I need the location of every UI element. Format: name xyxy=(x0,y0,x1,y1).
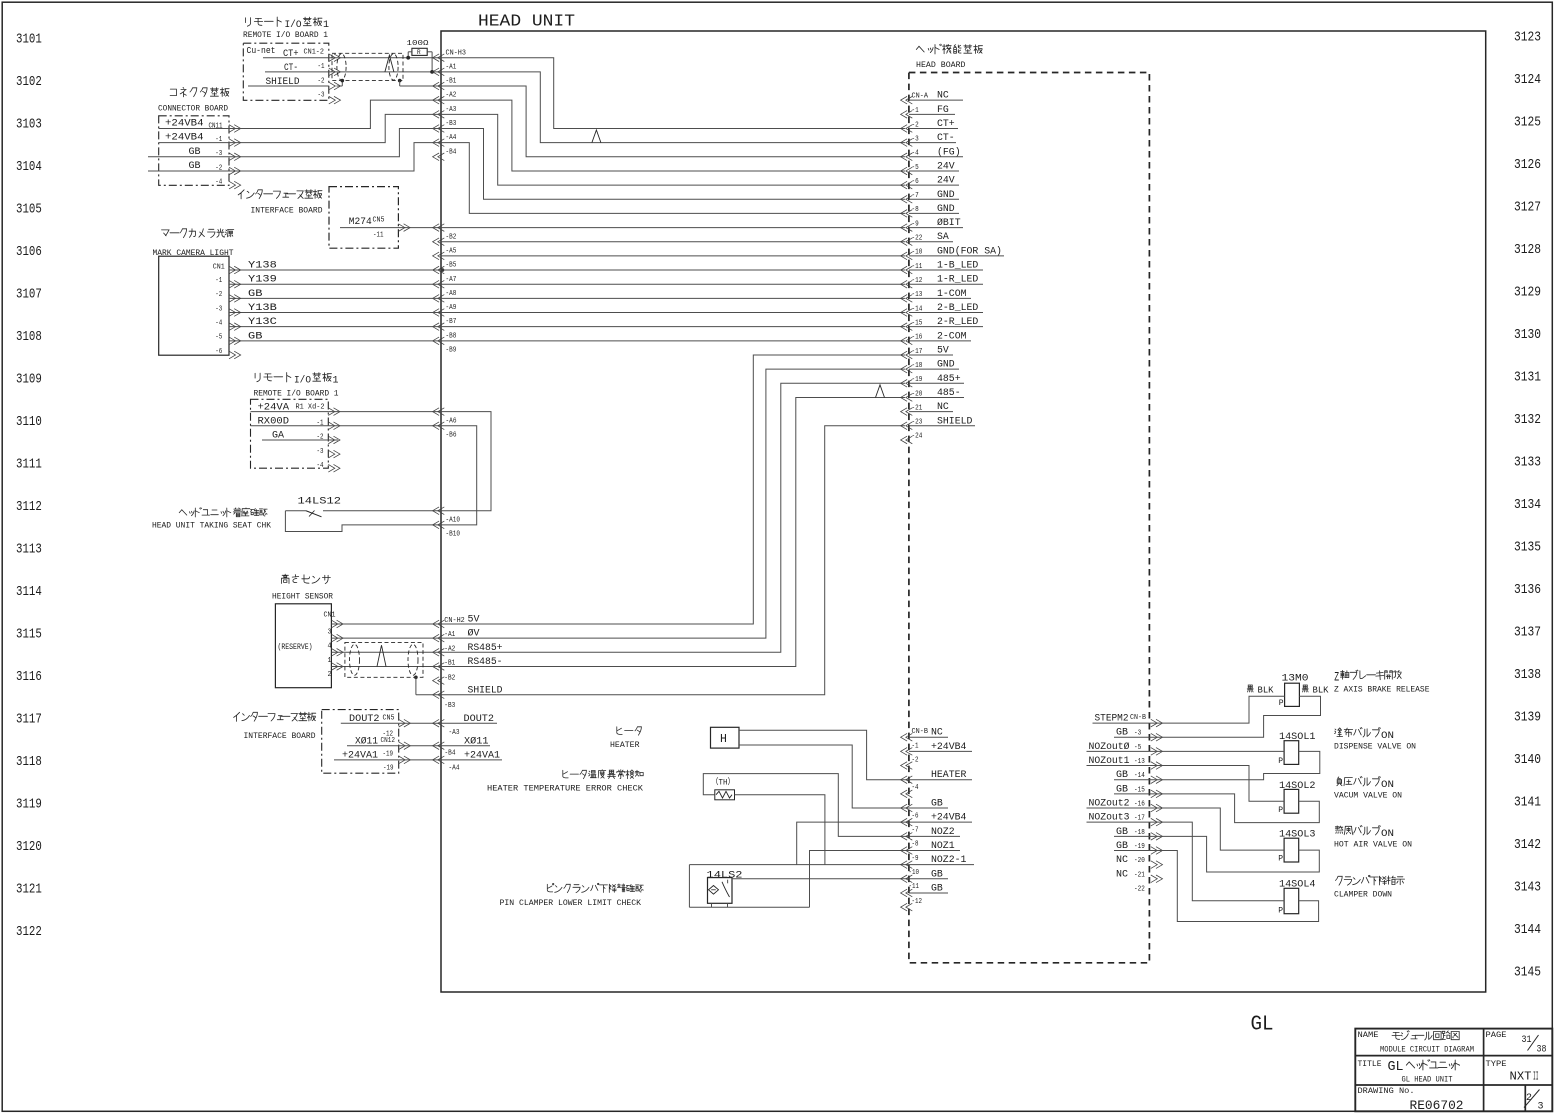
SOL4 right return to GB-19 xyxy=(1149,850,1318,921)
svg-text:3127: 3127 xyxy=(1514,201,1541,216)
CN-A pin -7 GND xyxy=(901,195,908,203)
+24VB4 feed for clamper sensor xyxy=(797,822,909,864)
svg-text:-B3: -B3 xyxy=(446,120,457,128)
svg-text:-3: -3 xyxy=(317,448,324,456)
svg-text:HEAD UNIT TAKING SEAT CHK: HEAD UNIT TAKING SEAT CHK xyxy=(152,522,271,531)
svg-text:HEAD BOARD: HEAD BOARD xyxy=(916,60,966,70)
svg-text:-3: -3 xyxy=(1134,730,1141,738)
svg-text:3124: 3124 xyxy=(1514,73,1541,88)
CN-B right pin -17 NOZout3 xyxy=(1151,818,1158,826)
CN-A pin NC xyxy=(901,96,908,104)
svg-text:3125: 3125 xyxy=(1514,116,1541,131)
svg-text:CN1: CN1 xyxy=(213,264,225,272)
svg-text:CN5: CN5 xyxy=(373,217,385,225)
svg-text:-11: -11 xyxy=(909,883,920,891)
CN-A pin -4 (FG) xyxy=(901,153,908,161)
wire B3 to GND xyxy=(441,128,905,199)
svg-text:-A5: -A5 xyxy=(446,247,457,255)
heater wires to CN-B xyxy=(739,730,909,779)
svg-text:3115: 3115 xyxy=(16,628,42,643)
svg-text:3116: 3116 xyxy=(16,670,42,685)
svg-text:INTERFACE BOARD: INTERFACE BOARD xyxy=(251,207,323,216)
CN-B pin row 49 +24VB4 xyxy=(901,748,908,756)
svg-text:-A8: -A8 xyxy=(446,290,457,298)
svg-text:MODULE CIRCUIT DIAGRAM: MODULE CIRCUIT DIAGRAM xyxy=(1380,1045,1474,1055)
svg-text:3138: 3138 xyxy=(1514,668,1541,683)
CN-B right pin -16 NOZout2 xyxy=(1151,804,1158,812)
wire CT- xyxy=(329,71,441,73)
proximity switch 14LS2 box xyxy=(708,878,733,904)
svg-text:DRAWING No.: DRAWING No. xyxy=(1358,1086,1415,1096)
interface board box xyxy=(329,187,398,249)
svg-text:NAME: NAME xyxy=(1358,1030,1379,1040)
title block xyxy=(1355,1029,1552,1112)
svg-text:+24VB4: +24VB4 xyxy=(165,132,204,144)
twisted pair peak 485 xyxy=(377,645,386,666)
CN-A pin -18 GND xyxy=(901,365,908,373)
svg-text:GL HEAD UNIT: GL HEAD UNIT xyxy=(1402,1075,1453,1085)
svg-text:+24VB4: +24VB4 xyxy=(165,118,204,130)
NOZ1 wire xyxy=(810,850,910,907)
svg-text:3136: 3136 xyxy=(1514,583,1541,598)
svg-text:3: 3 xyxy=(328,628,332,636)
CN-B pin row 51 HEATER xyxy=(901,776,908,784)
svg-text:-B10: -B10 xyxy=(446,531,461,539)
svg-text:3130: 3130 xyxy=(1514,328,1541,343)
svg-text:-22: -22 xyxy=(1134,885,1145,893)
svg-text:NC: NC xyxy=(1116,868,1128,880)
svg-text:ON: ON xyxy=(1381,730,1394,742)
svg-text:M274: M274 xyxy=(349,216,372,228)
svg-text:3113: 3113 xyxy=(16,543,42,558)
wire +24VA to A6 and inner loop to A10 xyxy=(328,411,441,413)
wire A3 to 24V xyxy=(441,114,905,185)
CN-A pin -22 SA xyxy=(901,238,908,246)
svg-text:-B4: -B4 xyxy=(446,148,457,156)
wire CT+ internal xyxy=(441,58,905,129)
remote I/O board 1 (2) title xyxy=(255,373,291,383)
CN-B right pin -13 NOZout1 xyxy=(1151,762,1158,770)
CN-B right pin -14 GB xyxy=(1151,776,1158,784)
svg-text:3106: 3106 xyxy=(16,245,42,260)
CN-A pin -1 FG xyxy=(901,111,908,119)
wire A2 to 24V xyxy=(441,100,905,171)
svg-text:-A2: -A2 xyxy=(446,92,457,100)
svg-text:3132: 3132 xyxy=(1514,413,1541,428)
svg-text:-13: -13 xyxy=(1134,758,1145,766)
svg-text:ON: ON xyxy=(1381,828,1394,840)
svg-text:3107: 3107 xyxy=(16,287,42,302)
board pins chevrons xyxy=(329,54,336,62)
TH circuit wires xyxy=(703,774,909,837)
wire A4 to GND xyxy=(441,143,905,214)
svg-text:3134: 3134 xyxy=(1514,498,1541,513)
CN-B right pin -20 NC xyxy=(1151,861,1158,869)
svg-text:3117: 3117 xyxy=(16,713,42,728)
label hot air valve on xyxy=(1335,826,1380,836)
sensor diamond xyxy=(709,886,719,895)
svg-text:CN1: CN1 xyxy=(324,612,336,620)
CN-A pin -16 2-COM xyxy=(901,337,908,345)
svg-text:2: 2 xyxy=(328,671,332,679)
svg-text:-14: -14 xyxy=(1134,772,1145,780)
svg-text:-1: -1 xyxy=(317,420,324,428)
svg-text:-21: -21 xyxy=(1134,871,1145,879)
HEAD BOARD dashed enclosure xyxy=(909,73,1150,963)
svg-text:-6: -6 xyxy=(215,348,222,356)
svg-text:-A6: -A6 xyxy=(446,417,457,425)
svg-text:BLK: BLK xyxy=(1258,686,1275,696)
svg-text:R1 Xd-2: R1 Xd-2 xyxy=(296,403,325,411)
wire shield inner xyxy=(441,426,905,695)
svg-text:-6: -6 xyxy=(912,813,919,821)
svg-text:3109: 3109 xyxy=(16,372,42,387)
label head board jp xyxy=(916,44,982,54)
svg-text:3145: 3145 xyxy=(1514,966,1541,981)
svg-text:-19: -19 xyxy=(383,751,394,759)
svg-text:NXT: NXT xyxy=(1510,1071,1532,1084)
svg-text:3118: 3118 xyxy=(16,755,42,770)
CN-A pin -20 485- xyxy=(901,394,908,402)
CN-B right pin -19 GB xyxy=(1151,847,1158,855)
svg-text:-B9: -B9 xyxy=(446,347,457,355)
svg-text:-12: -12 xyxy=(912,898,923,906)
CN-B right pin -5 NOZoutØ xyxy=(1151,748,1158,756)
svg-text:-4: -4 xyxy=(317,462,324,470)
svg-text:Z AXIS BRAKE RELEASE: Z AXIS BRAKE RELEASE xyxy=(1334,686,1430,695)
svg-text:38: 38 xyxy=(1537,1044,1547,1056)
remote I/O board 1 (Cu-net) title xyxy=(246,17,282,27)
connector board box xyxy=(159,116,229,186)
svg-text:HOT AIR VALVE ON: HOT AIR VALVE ON xyxy=(1334,841,1412,850)
svg-text:(RESERVE): (RESERVE) xyxy=(278,642,313,652)
shield cable (Cu-net pair) xyxy=(332,53,403,80)
CN-A pin -15 2-R_LED xyxy=(901,323,908,331)
svg-text:-B1: -B1 xyxy=(446,78,457,86)
HEAD UNIT enclosure box xyxy=(441,31,1486,992)
svg-text:-1: -1 xyxy=(215,277,222,285)
svg-text:-2: -2 xyxy=(912,756,919,764)
svg-text:-11: -11 xyxy=(373,232,384,240)
svg-text:3131: 3131 xyxy=(1514,371,1541,386)
svg-text:PAGE: PAGE xyxy=(1486,1030,1507,1040)
CN-A pin -14 2-B_LED xyxy=(901,309,908,317)
svg-text:3123: 3123 xyxy=(1514,31,1541,46)
heater temp error check label xyxy=(563,770,643,779)
SOL1 right return to GB-14 xyxy=(1149,751,1319,779)
label clamper down xyxy=(1336,875,1405,885)
svg-text:RE06702: RE06702 xyxy=(1410,1099,1464,1113)
svg-text:-7: -7 xyxy=(912,827,919,835)
svg-text:（TH）: （TH） xyxy=(711,777,735,788)
CN-B pin row 48 NC xyxy=(901,733,908,741)
svg-text:-17: -17 xyxy=(1134,815,1145,823)
CN-A pin -24 xyxy=(901,436,908,444)
sensor bottom legs xyxy=(711,903,713,907)
svg-text:PIN CLAMPER LOWER LIMIT CHECK: PIN CLAMPER LOWER LIMIT CHECK xyxy=(500,899,642,908)
switch blade xyxy=(306,511,322,517)
heater label xyxy=(617,727,642,735)
svg-text:-A7: -A7 xyxy=(446,276,457,284)
svg-text:CN-A: CN-A xyxy=(912,93,929,101)
svg-text:CN12: CN12 xyxy=(381,737,396,745)
shield cable height sensor xyxy=(345,642,423,677)
interface board title xyxy=(238,190,322,199)
svg-text:-15: -15 xyxy=(1134,786,1145,794)
height sensor box xyxy=(275,604,331,688)
label head unit taking seat chk xyxy=(179,508,267,517)
svg-text:14LS12: 14LS12 xyxy=(298,496,342,508)
CN-B pin row 54 +24VB4 xyxy=(901,818,908,826)
svg-text:-18: -18 xyxy=(1134,829,1145,837)
svg-text:-B4: -B4 xyxy=(445,750,456,758)
svg-text:-2: -2 xyxy=(318,77,325,85)
SOL1 left wire xyxy=(1149,750,1284,752)
svg-text:HEAD UNIT: HEAD UNIT xyxy=(478,13,575,32)
svg-text:I/O: I/O xyxy=(285,19,302,31)
SOL3 right return to GB-18 xyxy=(1149,836,1319,872)
svg-text:P: P xyxy=(1278,757,1283,766)
svg-text:3139: 3139 xyxy=(1514,711,1541,726)
svg-text:-10: -10 xyxy=(909,869,920,877)
CN-A pin -3 CT- xyxy=(901,139,908,147)
svg-text:-B2: -B2 xyxy=(446,233,457,241)
svg-text:-4: -4 xyxy=(215,320,222,328)
bottom wire run xyxy=(689,906,809,908)
svg-text:-1: -1 xyxy=(912,743,919,751)
wire SHIELD to (FG) xyxy=(441,86,905,157)
label vacum valve on xyxy=(1337,777,1381,787)
svg-text:GL: GL xyxy=(1251,1012,1274,1036)
svg-text:Z: Z xyxy=(1334,670,1339,685)
CN-A pin -19 485+ xyxy=(901,380,908,388)
svg-text:3143: 3143 xyxy=(1514,881,1541,896)
svg-text:3126: 3126 xyxy=(1514,158,1541,173)
svg-text:P: P xyxy=(1278,806,1283,815)
svg-text:-24: -24 xyxy=(912,433,923,441)
svg-text:-2: -2 xyxy=(317,434,324,442)
CN-A pin -23 SHIELD xyxy=(901,422,908,430)
CN-B pin row 55 NOZ2 xyxy=(901,833,908,841)
CN-B right pin -21 NC xyxy=(1151,875,1158,883)
twisted pair peak xyxy=(385,55,394,72)
CN-A pin -12 1-R_LED xyxy=(901,280,908,288)
twisted pair CT xyxy=(592,130,601,143)
svg-text:3121: 3121 xyxy=(16,883,42,898)
remote I/O board box xyxy=(251,399,329,468)
CN-B pin row 57 NOZ2-1 xyxy=(901,861,908,869)
svg-text:3137: 3137 xyxy=(1514,626,1541,641)
CN-B pin row 52 xyxy=(901,790,908,798)
svg-text:INTERFACE BOARD: INTERFACE BOARD xyxy=(244,732,316,741)
CN-B right pin -3 GB xyxy=(1151,733,1158,741)
svg-text:-3: -3 xyxy=(318,92,325,100)
sensor blade xyxy=(722,882,730,897)
mark camera light title xyxy=(162,229,234,238)
svg-text:3142: 3142 xyxy=(1514,838,1541,853)
SOL2 left wire from NOZout1 xyxy=(1149,766,1284,802)
CN-B right pin STEPM2 xyxy=(1151,719,1158,727)
svg-text:3128: 3128 xyxy=(1514,243,1541,258)
svg-text:-19: -19 xyxy=(1134,843,1145,851)
wires connector board to CN-H3 (step up) xyxy=(229,100,441,128)
SOL2 right return to GB-15 xyxy=(1149,794,1319,823)
svg-text:31: 31 xyxy=(1522,1034,1532,1046)
svg-text:3110: 3110 xyxy=(16,415,42,430)
interface board 2 title xyxy=(234,712,316,721)
svg-text:3114: 3114 xyxy=(16,585,42,600)
svg-text:P: P xyxy=(1278,855,1283,864)
13M0 right wire BLK xyxy=(1302,685,1308,692)
svg-text:-B8: -B8 xyxy=(446,332,457,340)
connector board title xyxy=(170,87,229,97)
svg-text:3144: 3144 xyxy=(1514,923,1541,938)
CN-A pin -21 NC xyxy=(901,408,908,416)
svg-text:-5: -5 xyxy=(215,334,222,342)
svg-text:3141: 3141 xyxy=(1514,796,1541,811)
remote I/O board 1 box xyxy=(243,43,328,100)
svg-text:ON: ON xyxy=(1381,779,1394,791)
svg-text:-B7: -B7 xyxy=(446,318,457,326)
svg-text:3120: 3120 xyxy=(16,840,42,855)
svg-text:-A4: -A4 xyxy=(449,764,460,772)
NOZ2-1 long row xyxy=(689,864,909,866)
CN-B pin row 56 NOZ1 xyxy=(901,847,908,855)
svg-text:HEIGHT SENSOR: HEIGHT SENSOR xyxy=(272,593,333,602)
svg-text:II: II xyxy=(1533,1071,1539,1084)
svg-text:3104: 3104 xyxy=(16,160,42,175)
CN-B pin row 58 GB xyxy=(901,875,908,883)
CN-B right pin -15 GB xyxy=(1151,790,1158,798)
svg-text:-A3: -A3 xyxy=(449,729,460,737)
svg-text:3101: 3101 xyxy=(16,32,42,47)
svg-text:3135: 3135 xyxy=(1514,541,1541,556)
svg-text:-20: -20 xyxy=(1134,857,1145,865)
svg-text:-2: -2 xyxy=(215,291,222,299)
svg-text:CN5: CN5 xyxy=(383,715,395,723)
svg-text:-A4: -A4 xyxy=(446,134,457,142)
CN-A pin -2 CT+ xyxy=(901,125,908,133)
svg-text:-8: -8 xyxy=(912,841,919,849)
svg-text:1: 1 xyxy=(323,19,329,31)
svg-text:3102: 3102 xyxy=(16,75,42,90)
svg-text:REMOTE I/O BOARD 1: REMOTE I/O BOARD 1 xyxy=(243,30,328,40)
label dispense valve on xyxy=(1335,728,1381,738)
shield wire joins xyxy=(337,85,343,87)
svg-text:CONNECTOR BOARD: CONNECTOR BOARD xyxy=(158,105,228,114)
svg-text:-B3: -B3 xyxy=(444,702,455,710)
svg-text:3140: 3140 xyxy=(1514,753,1541,768)
svg-text:100Ω: 100Ω xyxy=(407,40,430,48)
13M0 left wire BLK xyxy=(1247,685,1253,692)
svg-text:3: 3 xyxy=(1538,1101,1544,1113)
svg-text:P: P xyxy=(1278,906,1283,915)
svg-text:TYPE: TYPE xyxy=(1486,1059,1507,1069)
svg-text:3112: 3112 xyxy=(16,500,42,515)
svg-text:CN-B: CN-B xyxy=(912,728,929,736)
svg-text:CLAMPER DOWN: CLAMPER DOWN xyxy=(1334,891,1392,900)
svg-text:CN-B: CN-B xyxy=(1130,714,1146,722)
svg-text:-1: -1 xyxy=(318,63,325,71)
svg-text:HEATER: HEATER xyxy=(610,741,640,750)
svg-text:CN-H3: CN-H3 xyxy=(446,50,467,58)
svg-text:3119: 3119 xyxy=(16,798,42,813)
svg-text:-B5: -B5 xyxy=(446,262,457,270)
switch return wire to B10 xyxy=(285,511,441,532)
svg-text:GB: GB xyxy=(189,146,201,158)
CN-A pin -13 1-COM xyxy=(901,295,908,303)
svg-text:-4: -4 xyxy=(912,784,919,792)
svg-text:-A10: -A10 xyxy=(446,516,461,524)
svg-text:-16: -16 xyxy=(1134,801,1145,809)
svg-text:BLK: BLK xyxy=(1313,686,1330,696)
CN-A pin -10 GND(FOR SA) xyxy=(901,252,908,260)
twisted pair 485 inner xyxy=(876,385,885,398)
CN-B pin row 59 GB xyxy=(901,889,908,897)
sensor GB wire xyxy=(732,878,909,880)
svg-text:I/O: I/O xyxy=(294,375,311,387)
svg-text:HEATER TEMPERATURE ERROR CHECK: HEATER TEMPERATURE ERROR CHECK xyxy=(487,785,643,794)
svg-text:3129: 3129 xyxy=(1514,286,1541,301)
wire CT+ to resistor and CN-H3 xyxy=(329,57,441,59)
CN-A pin -8 GND xyxy=(901,210,908,218)
wires SA and GND(FOR SA) rows xyxy=(441,241,905,243)
svg-text:GB: GB xyxy=(189,160,201,172)
svg-text:GL: GL xyxy=(1388,1060,1404,1075)
wire RX00D to B6 and inner loop to B10 xyxy=(328,425,441,427)
CN-B pin row 50 xyxy=(901,762,908,770)
wire CT- internal xyxy=(441,72,905,143)
height sensor title xyxy=(282,574,331,584)
SOL4 left wire from NOZout3 xyxy=(1149,822,1284,901)
svg-text:TITLE: TITLE xyxy=(1358,1059,1382,1069)
svg-text:1: 1 xyxy=(333,375,339,387)
CN-B pin row 53 GB xyxy=(901,804,908,812)
heater H box xyxy=(711,727,740,748)
CN-A pin -6 24V xyxy=(901,181,908,189)
svg-text:3105: 3105 xyxy=(16,202,42,217)
shield tail xyxy=(414,676,418,680)
svg-text:3133: 3133 xyxy=(1514,456,1541,471)
svg-text:-3: -3 xyxy=(215,305,222,313)
svg-text:H: H xyxy=(720,733,727,746)
svg-text:CN11: CN11 xyxy=(209,123,223,131)
svg-text:4: 4 xyxy=(328,643,332,651)
interface board 2 box xyxy=(322,710,399,774)
wires CN-H2 to CN-A (5V GND 485 SHIELD) xyxy=(441,355,905,624)
SOL3 left wire from NOZout2 xyxy=(1149,808,1284,850)
svg-text:REMOTE I/O BOARD 1: REMOTE I/O BOARD 1 xyxy=(254,389,339,399)
CN-A pin -17 5V xyxy=(901,351,908,359)
svg-text:3103: 3103 xyxy=(16,117,42,132)
svg-text:-4: -4 xyxy=(215,179,222,187)
svg-text:NC: NC xyxy=(1116,854,1128,866)
svg-text:DISPENSE VALVE ON: DISPENSE VALVE ON xyxy=(1334,743,1416,752)
CN-A pin -9 ØBIT xyxy=(901,224,908,232)
svg-text:3122: 3122 xyxy=(16,925,42,940)
svg-text:3108: 3108 xyxy=(16,330,42,345)
CN-A pin -11 1-B_LED xyxy=(901,266,908,274)
svg-text:-9: -9 xyxy=(912,855,919,863)
svg-text:-A3: -A3 xyxy=(446,106,457,114)
svg-text:CN1-2: CN1-2 xyxy=(304,49,325,57)
svg-text:-A1: -A1 xyxy=(446,63,457,71)
svg-text:-A9: -A9 xyxy=(446,304,457,312)
svg-text:1: 1 xyxy=(328,657,332,665)
svg-text:-B2: -B2 xyxy=(444,674,455,682)
svg-text:Cu-net: Cu-net xyxy=(247,45,276,56)
head unit side DOUT2 X011 +24VA1 xyxy=(433,719,440,727)
